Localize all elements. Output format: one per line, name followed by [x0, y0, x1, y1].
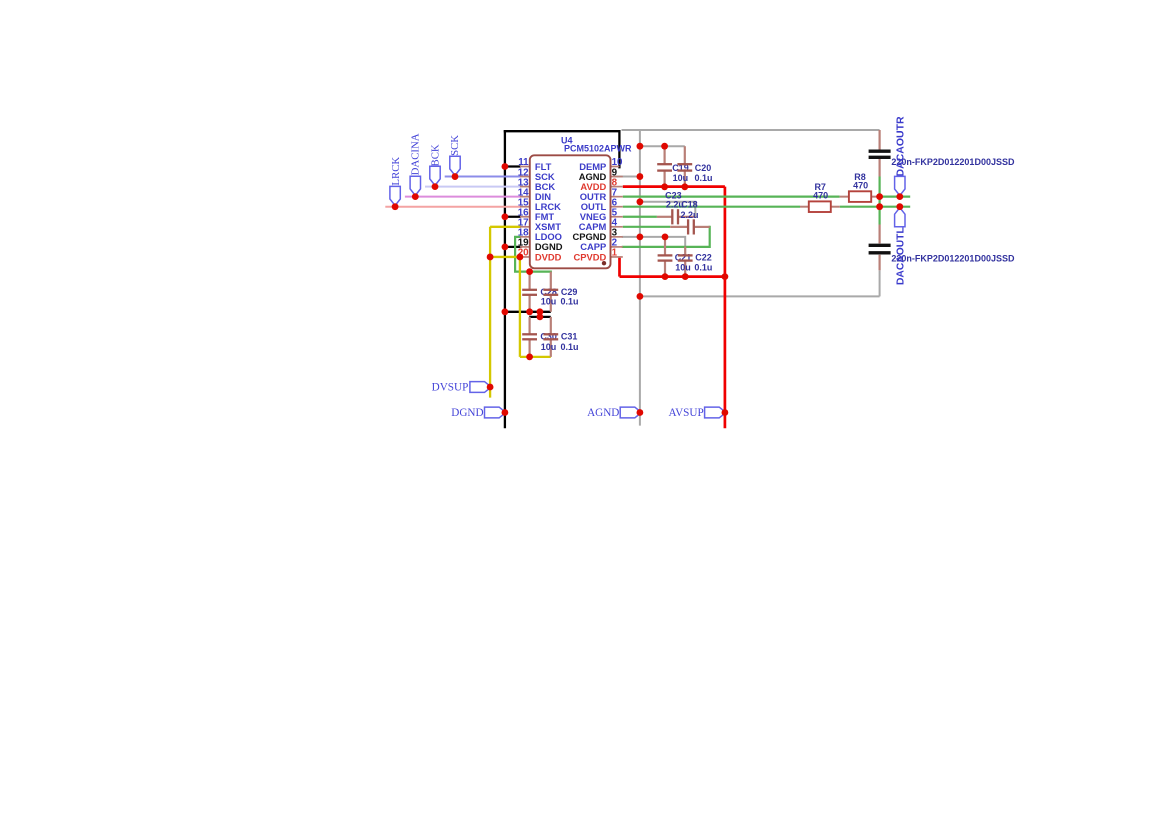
- capacitor C23 plates: [671, 209, 673, 224]
- wire SCK blue-violet: to pin 12: [445, 176, 521, 178]
- pin 6 OUTL stub: [611, 206, 623, 208]
- wire black: decoupling mid rail lower: [529, 316, 551, 318]
- capacitor C19 leads: [663, 146, 665, 164]
- pin 11 FLT stub: [520, 166, 530, 168]
- wire BCK lavender: to pin 13: [425, 186, 521, 188]
- pin 17 XSMT stub: [520, 226, 530, 228]
- capacitor C22 plates: [678, 254, 693, 256]
- pin 16 FMT stub: [520, 216, 530, 218]
- wire green: film cap lower link: [878, 207, 880, 225]
- input flag DACINA: [410, 176, 420, 195]
- capacitor C22 leads: [684, 247, 686, 256]
- junction mid jumper bottom: [537, 314, 544, 321]
- svg-text:470: 470: [813, 191, 828, 201]
- pin 1 CPVDD stub: [611, 256, 623, 258]
- junction C30 bottom: [526, 354, 533, 361]
- junction C28 bottom: [526, 308, 533, 315]
- svg-text:2.2u: 2.2u: [681, 210, 699, 220]
- junction C22 bottom: [682, 273, 689, 280]
- wire AVDD red: AVDD pin 8 feed: [623, 185, 725, 188]
- svg-text:10u: 10u: [675, 262, 691, 272]
- svg-text:0.1u: 0.1u: [695, 173, 713, 183]
- wire VNEG green: pin 5 to C23: [623, 216, 657, 218]
- junction C20 bottom: [681, 183, 688, 190]
- capacitor C30 leads: [528, 317, 530, 334]
- junction box bottom: [637, 293, 644, 300]
- pin 10 DEMP stub: [611, 166, 620, 168]
- wire AGND gray: box bottom edge: [640, 295, 880, 297]
- pin 2 CAPP stub: [611, 246, 623, 248]
- capacitor C18 plates: [687, 219, 689, 234]
- capacitor C21 leads: [664, 237, 666, 256]
- wire DVDD yellow: C30 C31 bottom rail: [520, 356, 551, 358]
- junction C19 rail: [637, 143, 644, 150]
- junction DGND pin tie: [502, 244, 509, 251]
- wire green: film cap upper link: [878, 177, 880, 197]
- junction DVDD pin: [517, 254, 524, 261]
- svg-text:DACAOUTL: DACAOUTL: [896, 227, 907, 285]
- svg-text:10u: 10u: [673, 173, 689, 183]
- wire AGND gray: C23 right plate branch: [640, 202, 695, 217]
- wire OUTR green: R8 to DACAOUTR: [880, 196, 911, 198]
- junction CPGND rail: [637, 233, 644, 240]
- wire CPVDD red: pin 1 drop: [618, 258, 621, 277]
- wire DVDD yellow: DVDD pin 20 tie: [490, 256, 520, 258]
- wire OUTR green: pin 7 to R8: [623, 196, 840, 198]
- wire DACINA violet: to pin 14 DIN: [405, 196, 521, 198]
- junction C21 bottom: [662, 273, 669, 280]
- capacitor C20 leads: [684, 146, 686, 164]
- wire DGND black: DEMP loop over IC top: [505, 131, 620, 167]
- wire LDOO green: pin 18 to C28 C29 rail: [515, 237, 551, 272]
- svg-text:DACAOUTR: DACAOUTR: [895, 116, 907, 176]
- svg-text:C22: C22: [695, 253, 712, 263]
- junction AGND pin: [637, 173, 644, 180]
- svg-text:0.1u: 0.1u: [561, 296, 579, 306]
- pin 3 CPGND stub: [611, 236, 623, 238]
- capacitor C30 plates: [522, 333, 537, 335]
- wire AGND gray: CPGND pin 3 and C21 C22 top rail: [623, 237, 685, 247]
- wire green: output column between junctions: [878, 197, 880, 207]
- pin 14 DIN stub: [520, 196, 530, 198]
- wire CPVDD red: bottom rail: [620, 275, 725, 278]
- wire black: DGND pin 19 tie: [505, 246, 522, 248]
- wire CAPM green: pin 4 to C18: [623, 226, 670, 228]
- pin 13 BCK stub: [520, 186, 530, 188]
- pin 7 OUTR stub: [611, 196, 623, 198]
- wire AGND gray: C19 C20 top rail: [640, 145, 685, 147]
- junction DVSUP branch: [487, 254, 494, 261]
- pin 12 SCK stub: [520, 176, 530, 178]
- wire DVDD yellow: drop to C30 C31 rail: [519, 257, 521, 357]
- input flag LRCK: [390, 186, 400, 205]
- wire AVDD red: main vertical to AVSUP port: [724, 187, 727, 429]
- resistor R8 body: [849, 191, 871, 202]
- film capacitor CR plates: [869, 150, 891, 153]
- capacitor C29 plates: [543, 289, 558, 291]
- junction red rail corner: [722, 273, 729, 280]
- capacitor C23 leads: [657, 216, 672, 218]
- wire LRCK pink: to pin 15: [385, 206, 521, 208]
- svg-text:DVSUP: DVSUP: [432, 382, 469, 394]
- junction C19 bottom: [661, 183, 668, 190]
- svg-text:1: 1: [612, 248, 618, 259]
- junction AGND port: [637, 409, 644, 416]
- svg-text:SCK: SCK: [449, 135, 461, 156]
- input flag SCK: [450, 156, 460, 175]
- wire AGND gray: box top edge: [622, 129, 880, 131]
- svg-text:0.1u: 0.1u: [561, 342, 579, 352]
- svg-text:DVDD: DVDD: [535, 251, 562, 262]
- resistor R7 leads: [800, 206, 809, 208]
- pin 9 AGND stub: [611, 176, 623, 178]
- capacitor C18 leads: [670, 226, 688, 228]
- junction R7 out: [876, 203, 883, 210]
- wire DGND black: main vertical to DGND port: [504, 130, 506, 428]
- resistor R8 leads: [840, 196, 849, 198]
- svg-text:10u: 10u: [541, 296, 557, 306]
- input flag BCK: [430, 166, 440, 185]
- pin 4 CAPM stub: [611, 226, 623, 228]
- port AGND flag: [620, 407, 641, 418]
- capacitor C29 leads: [550, 272, 552, 290]
- pin 15 LRCK stub: [520, 206, 530, 208]
- pin 20 DVDD stub: [520, 256, 530, 258]
- capacitor C31 plates: [543, 333, 558, 335]
- IC U4 PCM5102APWR body: [530, 155, 611, 268]
- wire OUTL green: pin 6 to R7: [623, 206, 800, 208]
- film capacitor CR leads: [878, 130, 880, 150]
- film capacitor CL leads: [878, 225, 880, 244]
- wire black: FLT pin 11 tie: [505, 165, 521, 167]
- svg-text:PCM5102APWR: PCM5102APWR: [564, 144, 632, 154]
- film capacitor CL plates: [869, 244, 891, 247]
- capacitor C28 leads: [528, 272, 530, 290]
- svg-text:LRCK: LRCK: [390, 157, 402, 186]
- junction C23 branch: [637, 198, 644, 205]
- svg-text:DACINA: DACINA: [410, 133, 422, 175]
- svg-text:C29: C29: [561, 287, 578, 297]
- capacitor C20 plates: [677, 163, 692, 165]
- junction mid rail left: [502, 308, 509, 315]
- svg-text:BCK: BCK: [429, 144, 441, 166]
- port DVSUP flag: [470, 382, 491, 393]
- junction C19 top: [661, 143, 668, 150]
- IC U4 origin dot: [602, 261, 606, 265]
- svg-text:CPVDD: CPVDD: [573, 251, 606, 262]
- junction DGND port: [502, 409, 509, 416]
- pin 18 LDOO stub: [520, 236, 530, 238]
- junction LRCK flag: [392, 203, 399, 210]
- junction AVSUP port: [722, 409, 729, 416]
- wire CAPP green: pin 2 to C18 right plate: [623, 227, 710, 247]
- port DGND flag: [485, 407, 506, 418]
- wire OUTL green: R7 to DACAOUTL: [840, 206, 910, 208]
- wire AGND gray: AGND pin 9 tie: [614, 176, 640, 178]
- svg-text:0.1u: 0.1u: [694, 262, 712, 272]
- svg-text:AVSUP: AVSUP: [668, 407, 703, 419]
- svg-text:470: 470: [853, 181, 868, 191]
- svg-text:C20: C20: [695, 163, 712, 173]
- output flag DACAOUTR: [895, 176, 905, 195]
- junction mid jumper top: [537, 308, 544, 315]
- wire black: mid rail jumper: [539, 312, 541, 317]
- capacitor C31 leads: [550, 317, 552, 334]
- junction FMT tie: [502, 213, 509, 220]
- wire black: FMT pin 16 tie: [505, 216, 521, 218]
- junction BCK flag: [432, 183, 439, 190]
- svg-text:AGND: AGND: [587, 407, 619, 419]
- junction FLT tie: [502, 163, 509, 170]
- junction C28 top: [526, 268, 533, 275]
- capacitor C19 plates: [657, 163, 672, 165]
- wire black: decoupling mid rail upper: [505, 311, 551, 313]
- wire DVDD yellow: XSMT pin 17 tie: [490, 226, 521, 228]
- svg-text:DGND: DGND: [451, 407, 483, 419]
- svg-text:220n-FKP2D012201D00JSSD: 220n-FKP2D012201D00JSSD: [891, 254, 1015, 264]
- junction DVSUP port: [487, 384, 494, 391]
- svg-text:220n-FKP2D012201D00JSSD: 220n-FKP2D012201D00JSSD: [891, 157, 1015, 167]
- pin 19 DGND stub: [520, 246, 530, 248]
- junction R8 out: [876, 193, 883, 200]
- junction DACAOUTL flag: [896, 203, 903, 210]
- junction C21 top: [662, 233, 669, 240]
- capacitor C28 plates: [522, 289, 537, 291]
- svg-text:C31: C31: [561, 332, 578, 342]
- wire AGND gray: film cap lower return: [879, 270, 881, 296]
- wire DVDD yellow: vertical to DVSUP port: [489, 227, 491, 398]
- output flag DACAOUTL: [895, 208, 905, 227]
- resistor R7 body: [809, 201, 831, 212]
- capacitor C21 plates: [658, 254, 673, 256]
- wire AGND gray: main vertical to AGND port: [639, 130, 641, 426]
- junction DACINA flag: [412, 193, 419, 200]
- svg-text:C18: C18: [681, 200, 698, 210]
- pin 8 AVDD stub: [611, 186, 623, 188]
- pin 5 VNEG stub: [611, 216, 623, 218]
- junction DACAOUTR flag: [896, 193, 903, 200]
- port AVSUP flag: [705, 407, 726, 418]
- junction SCK flag: [452, 173, 459, 180]
- svg-text:10u: 10u: [541, 342, 557, 352]
